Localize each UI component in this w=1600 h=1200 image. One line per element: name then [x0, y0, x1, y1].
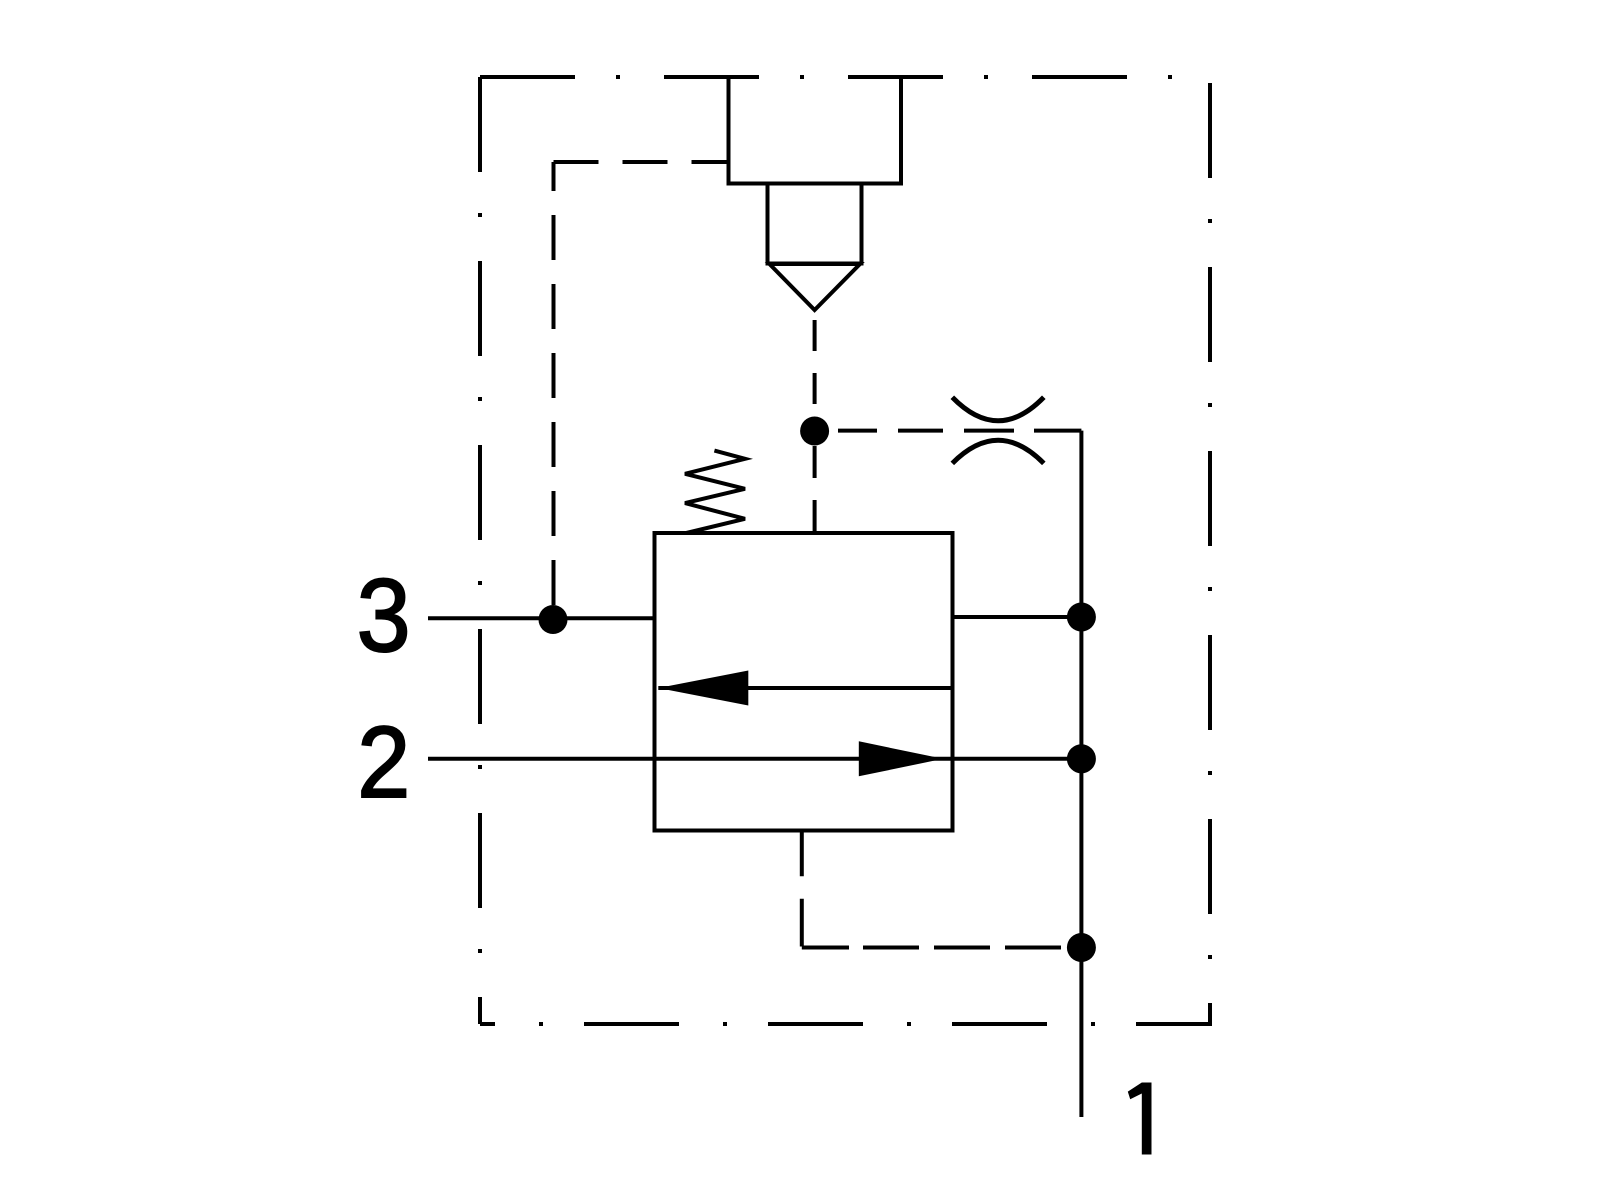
pilot line: node A to orifice corner (dashed horizontal) [838, 429, 1081, 433]
check valve arrow left [658, 671, 748, 706]
drain line: dashed horizontal to port 1 node [802, 946, 1061, 950]
adjustment screw stem (small box) [768, 184, 862, 264]
node A junction dot [800, 417, 829, 446]
svg-text:3: 3 [357, 558, 411, 674]
junction dot: right bus middle [1067, 744, 1096, 773]
wire: port 2 line (through valve to right bus) [428, 757, 1081, 761]
check valve line [658, 686, 952, 690]
port 3 junction dot [539, 605, 568, 634]
pilot poppet cone [770, 264, 861, 310]
pilot line: over to adjustment box (dashed horizontal) [554, 160, 729, 164]
enclosure boundary (dash-dot cartridge envelope, top/right/bottom) [480, 77, 1210, 1024]
wire: port 3 lead [428, 616, 655, 620]
svg-text:2: 2 [357, 707, 410, 819]
pilot line: poppet to node A (dashed vertical) [813, 320, 817, 404]
enclosure boundary (dash-dot, left edge) [478, 77, 482, 1024]
drain line: dashed vertical [800, 899, 804, 947]
orifice upper arc [952, 397, 1044, 421]
label port 1 [1128, 1083, 1152, 1155]
port 1 junction dot [1067, 933, 1096, 962]
drain line: valve bottom stub (solid) [800, 831, 804, 877]
valve body (main spool box) [655, 533, 953, 831]
flow arrow right (port 2 to 1) [859, 741, 943, 776]
pilot line: port 3 node up (dashed vertical) [552, 162, 556, 605]
adjustment screw body (top box, open at top) [729, 77, 902, 184]
orifice lower arc [952, 440, 1044, 463]
wire: valve to right bus (upper) [953, 615, 1082, 619]
spring [685, 451, 745, 533]
junction dot: right bus upper [1067, 603, 1096, 632]
pilot line: node A to valve box (dashed vertical) [813, 446, 817, 533]
wire: right bus (port 1 riser) [1079, 431, 1083, 1117]
